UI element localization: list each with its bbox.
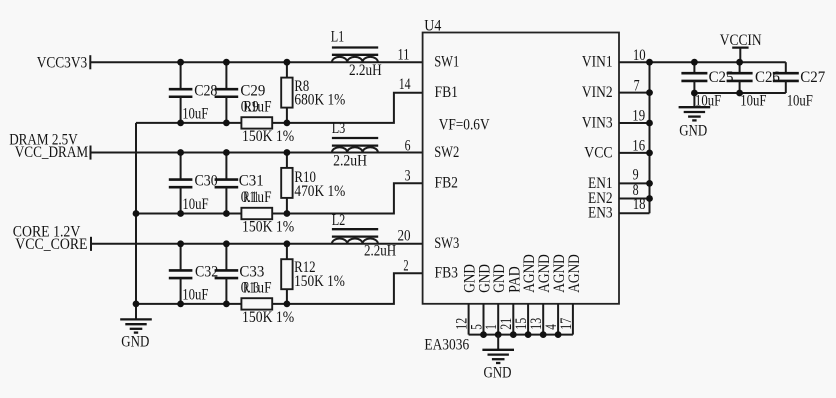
svg-text:16: 16 [632, 138, 645, 155]
wire EN1 [619, 182, 650, 184]
svg-text:3: 3 [405, 167, 411, 184]
svg-text:FB3: FB3 [435, 265, 459, 282]
junction C26 VCCIN top [736, 59, 743, 66]
junction R8 top [284, 59, 291, 66]
wire right vertical bus [649, 62, 651, 213]
svg-text:C28: C28 [194, 82, 217, 99]
wire FB2 feedback rail [136, 183, 423, 213]
svg-text:7: 7 [634, 77, 640, 94]
inductor L1 [331, 28, 382, 79]
junction C32 bottom [177, 301, 184, 308]
svg-text:C29: C29 [240, 82, 265, 99]
junction bottom pin [495, 331, 502, 338]
svg-text:VIN2: VIN2 [582, 84, 613, 101]
svg-text:470K 1%: 470K 1% [294, 183, 345, 200]
wire bottom pin 12 [468, 304, 470, 335]
junction bus VIN2 [646, 89, 653, 96]
junction C26 bottom [736, 90, 743, 97]
wire FB3 feedback rail [136, 273, 423, 304]
ground GND bottom [482, 335, 514, 382]
junction C28 top [177, 59, 184, 66]
svg-text:AGND: AGND [566, 254, 583, 293]
junction R8 bottom [284, 120, 291, 127]
wire bottom pin 13 [542, 304, 544, 335]
svg-text:GND: GND [679, 122, 707, 139]
wire left ground bus [135, 123, 137, 304]
junction R10 top [284, 149, 291, 156]
junction C33 top [223, 240, 230, 247]
svg-text:SW3: SW3 [434, 235, 459, 252]
wire net VCC3V3 to SW1 [90, 61, 422, 63]
wire VCC [619, 152, 650, 154]
port VCC_CORE [13, 224, 91, 254]
svg-text:VF=0.6V: VF=0.6V [439, 117, 490, 134]
svg-text:FB1: FB1 [435, 84, 459, 101]
wire VIN1 to input caps [619, 61, 786, 63]
svg-text:10uF: 10uF [182, 286, 208, 303]
junction bottom pin [540, 331, 547, 338]
port VCC3V3 [37, 54, 91, 71]
wire bottom pin 4 [557, 304, 559, 335]
svg-text:GND: GND [121, 334, 149, 351]
wire EN2 [619, 198, 650, 200]
ground GND left [120, 304, 152, 351]
svg-text:R13: R13 [243, 279, 259, 296]
junction bus VCC [646, 150, 653, 157]
svg-text:C26: C26 [755, 69, 780, 86]
svg-text:2: 2 [403, 257, 408, 274]
svg-text:VCC: VCC [584, 144, 612, 161]
wire bottom ground bus [469, 334, 573, 336]
svg-text:FB2: FB2 [435, 175, 459, 192]
svg-text:L1: L1 [331, 28, 345, 45]
capacitor C25 [681, 62, 733, 109]
svg-text:11: 11 [398, 46, 410, 63]
junction bus VIN1 [646, 59, 653, 66]
svg-text:2.2uH: 2.2uH [364, 242, 397, 259]
svg-text:150K 1%: 150K 1% [242, 219, 294, 236]
junction C28 bottom [177, 120, 184, 127]
junction bottom pin [525, 331, 532, 338]
svg-text:17: 17 [558, 318, 575, 330]
wire FB1 feedback rail [136, 93, 423, 123]
svg-text:10uF: 10uF [182, 105, 208, 122]
svg-text:20: 20 [398, 227, 411, 244]
svg-text:VCC_DRAM: VCC_DRAM [15, 144, 89, 161]
svg-text:VCCIN: VCCIN [720, 32, 762, 49]
IC U4 left pin names [434, 54, 490, 282]
svg-text:2.2uH: 2.2uH [333, 153, 367, 170]
svg-text:150K 1%: 150K 1% [242, 128, 294, 145]
svg-text:EN3: EN3 [588, 205, 613, 222]
junction bottom pin [480, 331, 487, 338]
junction C30 top [177, 149, 184, 156]
wire bottom pin 21 [512, 304, 514, 335]
svg-text:10uF: 10uF [182, 196, 208, 213]
svg-text:VIN3: VIN3 [582, 114, 613, 131]
junction bottom pin [555, 331, 562, 338]
svg-text:9: 9 [633, 167, 639, 184]
junction R12 bottom [284, 301, 291, 308]
resistor R9 [241, 98, 294, 145]
capacitor C26 [727, 62, 780, 109]
wire bottom pin 1 [497, 304, 499, 335]
junction bus EN1 [646, 180, 653, 187]
junction bus VIN3 [646, 120, 653, 127]
resistor R10 [281, 153, 345, 214]
svg-text:6: 6 [405, 137, 411, 154]
junction C29 bottom [223, 120, 230, 127]
capacitor C30 [169, 153, 218, 214]
junction bus EN2 [646, 195, 653, 202]
wire VIN3 [619, 122, 650, 124]
svg-text:C25: C25 [709, 69, 734, 86]
wire input caps bottom rail [694, 92, 785, 94]
junction C25 bottom [691, 90, 698, 97]
capacitor C28 [169, 62, 218, 123]
inductor L2 [332, 212, 397, 259]
wire VIN2 [619, 92, 650, 94]
junction R12 top [284, 240, 291, 247]
svg-text:C31: C31 [239, 172, 264, 189]
svg-text:10uF: 10uF [787, 92, 813, 109]
svg-text:EA3036: EA3036 [424, 336, 469, 353]
capacitor C27 [773, 62, 825, 109]
svg-text:L2: L2 [332, 212, 346, 229]
junction R10 bottom [284, 210, 291, 217]
junction C29 top [223, 59, 230, 66]
svg-text:U4: U4 [424, 18, 441, 35]
resistor R11 [241, 189, 294, 236]
svg-text:VIN1: VIN1 [582, 54, 613, 71]
power VCCIN [720, 32, 762, 62]
op-amp U1 IC U4 body [423, 18, 619, 304]
svg-text:10: 10 [633, 47, 646, 64]
svg-text:R11: R11 [243, 189, 258, 206]
ground GND right [679, 93, 711, 139]
junction rail2 bus [133, 210, 140, 217]
svg-text:SW2: SW2 [434, 144, 459, 161]
svg-text:18: 18 [633, 196, 646, 213]
capacitor C33 [215, 244, 272, 304]
port VCC_DRAM [9, 132, 90, 161]
resistor R13 [241, 279, 294, 326]
svg-text:GND: GND [484, 365, 512, 382]
junction C25 top [691, 59, 698, 66]
svg-text:14: 14 [399, 76, 411, 93]
junction C31 top [223, 149, 230, 156]
svg-text:C27: C27 [800, 69, 825, 86]
svg-text:150K 1%: 150K 1% [294, 273, 345, 290]
svg-text:C30: C30 [195, 172, 218, 189]
junction C31 bottom [223, 210, 230, 217]
capacitor C32 [169, 244, 218, 304]
svg-text:SW1: SW1 [434, 54, 459, 71]
resistor R12 [281, 244, 345, 304]
svg-text:150K 1%: 150K 1% [242, 309, 294, 326]
capacitor C29 [215, 62, 272, 123]
svg-text:L3: L3 [332, 120, 346, 137]
svg-text:2.2uH: 2.2uH [349, 62, 382, 79]
capacitor C31 [215, 153, 272, 214]
inductor L3 [332, 120, 379, 170]
junction C30 bottom [177, 210, 184, 217]
IC U4 right pin names [582, 54, 613, 222]
junction C33 bottom [223, 301, 230, 308]
svg-text:19: 19 [632, 108, 645, 125]
svg-text:R9: R9 [243, 98, 258, 115]
resistor R8 [281, 62, 345, 123]
svg-text:680K 1%: 680K 1% [294, 92, 345, 109]
wire bottom pin 17 [572, 304, 574, 335]
svg-text:10uF: 10uF [740, 92, 766, 109]
junction rail3 bus [133, 301, 140, 308]
wire net VCC_DRAM to SW2 [91, 152, 423, 154]
wire net VCC_CORE to SW3 [91, 243, 423, 245]
svg-text:C33: C33 [239, 263, 264, 280]
svg-text:VCC_CORE: VCC_CORE [15, 236, 87, 253]
wire bottom pin 15 [527, 304, 529, 335]
junction C32 top [177, 240, 184, 247]
svg-text:VCC3V3: VCC3V3 [37, 54, 87, 71]
wire bottom pin 5 [483, 304, 485, 335]
wire EN3 [619, 212, 650, 214]
junction bottom pin [510, 331, 517, 338]
